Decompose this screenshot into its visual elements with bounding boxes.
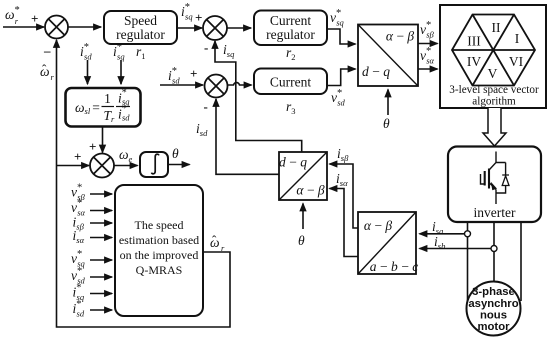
wire qmras input isalpha — [90, 237, 112, 239]
wire omega_r* input — [3, 26, 44, 28]
wire vsq* to ab-dq box — [327, 29, 356, 44]
svg-text:v*sα: v*sα — [420, 46, 435, 66]
svg-text:regulator: regulator — [116, 27, 165, 42]
svg-text:-: - — [204, 40, 208, 55]
svg-text:Q-MRAS: Q-MRAS — [136, 263, 183, 277]
wire qmras input isd* — [90, 309, 112, 311]
wire vsbeta* to svm — [418, 43, 438, 45]
wire qmras input isbeta — [90, 222, 112, 224]
wire theta into ab-dq box — [387, 90, 389, 116]
hexagon — [452, 15, 535, 86]
svg-text:isβ: isβ — [337, 146, 349, 163]
abc transform box — [358, 212, 418, 274]
svg-text:θ: θ — [383, 116, 390, 131]
wire qmras input vsalpha* — [90, 210, 112, 212]
svg-text:v*sβ: v*sβ — [420, 20, 435, 40]
wire qmras input vsbeta* — [90, 193, 112, 195]
wire inverter phase a — [467, 222, 469, 302]
summing junction 3 — [205, 75, 228, 98]
wire junction1 to speed regulator — [68, 26, 101, 28]
wsl box — [66, 88, 141, 127]
svg-text:i*sq: i*sq — [181, 2, 193, 22]
svg-text:ˆ: ˆ — [42, 62, 47, 77]
wire integrator theta output — [168, 164, 190, 166]
svg-text:III: III — [467, 34, 481, 49]
svg-text:v*sq: v*sq — [330, 8, 345, 28]
svg-text:isq: isq — [223, 42, 235, 59]
svg-text:on the improved: on the improved — [120, 248, 199, 262]
svg-text:ˆ: ˆ — [212, 233, 217, 248]
integrator box — [140, 152, 168, 177]
ab-dq transform box — [358, 25, 418, 87]
motor circle — [467, 282, 521, 336]
svg-text:d − q: d − q — [279, 155, 307, 170]
label omega_r_hat output — [210, 233, 225, 254]
svg-text:isα: isα — [336, 171, 348, 188]
svg-text:I: I — [515, 31, 520, 46]
svg-text:α − β: α − β — [386, 29, 415, 44]
svg-text:+: + — [74, 149, 81, 164]
current box — [254, 69, 327, 95]
label omega_r_hat feedback — [40, 62, 55, 83]
IGBT with diode — [481, 152, 510, 205]
wire omega_r_hat branch to junction4 — [57, 165, 90, 167]
svg-text:asynchro: asynchro — [468, 298, 518, 310]
svg-text:+: + — [89, 139, 96, 154]
svg-text:r1: r1 — [136, 44, 146, 61]
svg-text:estimation based: estimation based — [119, 233, 199, 247]
svg-text:α − β: α − β — [364, 218, 393, 233]
svg-text:r: r — [51, 72, 55, 82]
qmras box — [115, 185, 203, 316]
svg-text:algorithm: algorithm — [472, 95, 516, 107]
wire isb to abc box — [420, 248, 491, 250]
wire wsl output to junction4 — [102, 127, 104, 153]
svg-text:Current: Current — [270, 13, 311, 28]
block arrow svm to inverter — [483, 108, 506, 146]
wire isbeta abc to dq box — [330, 164, 359, 228]
svg-text:motor: motor — [477, 321, 510, 333]
svg-text:i*sd: i*sd — [168, 66, 180, 86]
svg-text:ωe: ωe — [119, 147, 133, 164]
wire speed regulator to junction2 — [177, 27, 202, 29]
wire qmras input vsd* — [90, 276, 112, 278]
summing junction 4 — [90, 154, 114, 178]
svg-text:inverter: inverter — [474, 205, 516, 220]
svg-text:ωsl=: ωsl= — [75, 100, 100, 116]
wire vsalpha* to svm — [418, 68, 438, 70]
wire isq* down into wsl box — [120, 60, 122, 84]
svg-text:θ: θ — [298, 233, 305, 248]
svg-text:+: + — [195, 10, 202, 25]
svg-text:+: + — [31, 11, 38, 26]
wire isd* down into wsl box — [87, 60, 89, 84]
svg-text:-: - — [204, 99, 208, 114]
wire isalpha abc to dq box — [330, 189, 359, 257]
svg-text:V: V — [488, 66, 498, 81]
svg-text:VI: VI — [509, 54, 524, 69]
wire qmras input isq* — [90, 293, 112, 295]
svg-text:isd: isd — [196, 121, 208, 138]
speed regulator box — [104, 11, 177, 44]
svg-text:The speed: The speed — [135, 218, 184, 232]
svg-text:3-phase: 3-phase — [472, 286, 515, 298]
svg-text:Tr: Tr — [104, 108, 116, 124]
current regulator box — [254, 11, 327, 46]
svg-text:1: 1 — [104, 91, 111, 106]
node isa — [465, 231, 471, 237]
svg-text:a − b − c: a − b − c — [370, 259, 419, 274]
wire inverter phase c — [520, 222, 522, 301]
svg-text:Speed: Speed — [124, 13, 157, 28]
wire omega_r_hat return loop — [57, 40, 231, 327]
svg-text:ω*r: ω*r — [5, 5, 20, 26]
svm box — [440, 5, 546, 108]
svg-text:II: II — [492, 20, 501, 35]
svg-text:α − β: α − β — [296, 183, 325, 198]
svg-text:nous: nous — [480, 310, 507, 322]
wire inverter phase b — [493, 222, 495, 282]
wire qmras input vsq* — [90, 259, 112, 261]
summing junction 1 — [45, 16, 68, 39]
wire vsd* to ab-dq box — [327, 69, 356, 86]
svg-text:IV: IV — [467, 54, 481, 69]
wire isd feedback to junction3 — [216, 99, 279, 174]
svg-text:d − q: d − q — [362, 64, 390, 79]
svg-text:r3: r3 — [286, 99, 296, 116]
svg-text:isb: isb — [434, 234, 445, 251]
wire junction3 to current box with hop — [228, 83, 252, 85]
svg-text:r2: r2 — [286, 45, 296, 62]
wire junction2 to current regulator — [227, 27, 251, 29]
svg-text:i*sd: i*sd — [80, 42, 92, 62]
summing junction 2 — [203, 16, 227, 40]
svg-text:v*sd: v*sd — [331, 88, 346, 108]
svg-text:–: – — [43, 43, 51, 58]
wire isq feedback to junction2 — [215, 41, 302, 152]
svg-text:Current: Current — [270, 75, 311, 90]
dq transform box — [279, 152, 327, 200]
svg-text:+: + — [190, 66, 197, 81]
wire theta into dq box — [302, 204, 304, 230]
svg-text:θ: θ — [172, 146, 179, 161]
wire isa to abc box — [420, 233, 465, 235]
wire junction4 to integrator — [114, 165, 138, 167]
node isb — [491, 246, 497, 252]
inverter box — [448, 147, 541, 223]
svg-text:regulator: regulator — [266, 27, 315, 42]
wire isd* input to junction3 — [160, 84, 203, 86]
